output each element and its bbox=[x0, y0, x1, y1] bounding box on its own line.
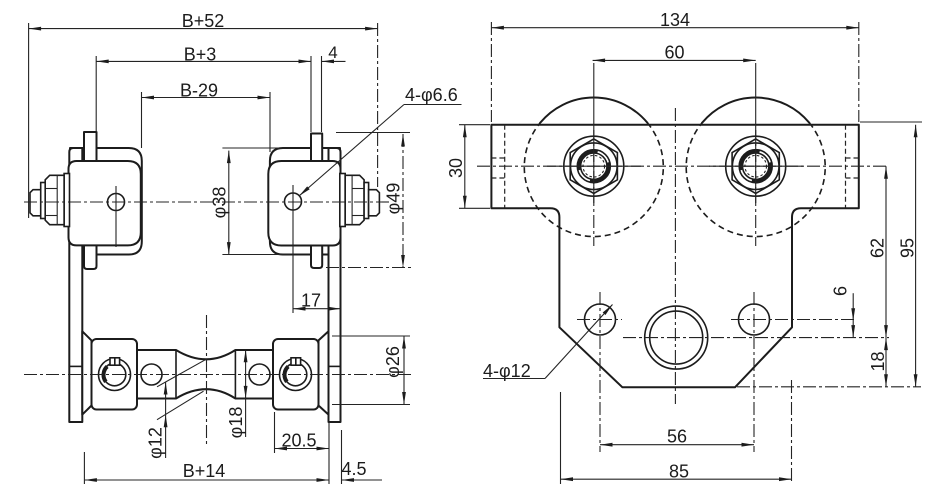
dim 6 bbox=[852, 293, 854, 337]
svg-text:φ12: φ12 bbox=[146, 427, 166, 459]
dim 56 bbox=[600, 444, 754, 446]
dim B+3 bbox=[96, 60, 311, 62]
svg-text:30: 30 bbox=[446, 158, 466, 178]
ext line phi49 top bbox=[336, 132, 410, 134]
ext line B+14 left bbox=[83, 452, 85, 484]
bolt left: washer bbox=[64, 174, 69, 227]
dim 17 bbox=[293, 308, 341, 310]
centerline: wheel axis horizontal bbox=[477, 165, 888, 167]
retaining ring left bbox=[104, 367, 108, 382]
centerline: lower hole right horizontal bbox=[731, 319, 856, 321]
ext line 4 right bbox=[321, 56, 323, 132]
clamp bracket right bbox=[268, 161, 340, 246]
bushing block left bbox=[92, 339, 138, 410]
bracket hole left crosshair bbox=[115, 186, 117, 247]
hanger tab left upper bbox=[84, 132, 97, 162]
dim 4 (tab thickness) bbox=[322, 60, 346, 62]
mounting hole lower-left (phi12) bbox=[585, 304, 616, 335]
bolt right: collar bbox=[364, 183, 369, 219]
svg-text:134: 134 bbox=[660, 10, 690, 30]
axle nut left: thread circle bbox=[583, 155, 605, 177]
dim 4.5 bbox=[342, 479, 383, 481]
ext line B-29 left bbox=[141, 92, 143, 148]
bearing outer circle left bbox=[99, 359, 131, 391]
centerline: vertical mid axis bbox=[206, 315, 208, 445]
sheave shoulder right bbox=[234, 350, 236, 399]
dim 60 bbox=[593, 59, 756, 61]
ext line 20.5 left bbox=[274, 412, 276, 453]
centerline: bracket bolt axis bbox=[24, 201, 389, 203]
hanger tab left lower bbox=[84, 244, 97, 269]
dim 134 bbox=[491, 27, 858, 29]
hanger tab right lower bbox=[311, 244, 322, 268]
retaining ring right bbox=[285, 367, 289, 382]
svg-text:φ49: φ49 bbox=[384, 183, 404, 215]
svg-text:18: 18 bbox=[868, 351, 888, 371]
bearing outer circle right bbox=[280, 359, 312, 391]
bushing block right bbox=[273, 339, 319, 410]
bracket hole right bbox=[285, 193, 302, 210]
bolt left: hex nut bbox=[45, 175, 64, 224]
wheel hub left (background silhouette) bbox=[70, 148, 142, 255]
centerline: lower hole left vertical bbox=[599, 292, 601, 452]
bolt left: collar bbox=[41, 183, 46, 219]
dim phi18 bbox=[245, 350, 247, 437]
hidden clamp lip right bbox=[845, 125, 847, 209]
wheel hub right (background silhouette) bbox=[270, 148, 340, 255]
dim phi12 line bbox=[165, 382, 167, 458]
ext line 85 left bbox=[560, 392, 562, 484]
dim 62 bbox=[885, 166, 887, 337]
axle nut right: thread circle bbox=[745, 155, 767, 177]
bolt right: thread stub bbox=[369, 190, 380, 216]
dim phi38 bbox=[228, 151, 230, 255]
svg-text:85: 85 bbox=[669, 461, 689, 481]
side plate profile bbox=[491, 125, 858, 388]
ext line B+14 right / 20.5 right bbox=[328, 422, 330, 484]
center bushing hole inner bbox=[650, 311, 703, 364]
ext line 4 left bbox=[310, 56, 312, 132]
centerline: lower hole left horizontal bbox=[577, 319, 622, 321]
axle nut right: circlip arcs bbox=[741, 151, 760, 170]
ext line phi38 bottom bbox=[222, 254, 290, 256]
svg-text:62: 62 bbox=[868, 238, 888, 258]
dim 30 bbox=[464, 125, 466, 209]
centerline: wheel left vertical bbox=[593, 63, 595, 127]
bolt right: hex nut bbox=[345, 175, 364, 224]
sheave shoulder left bbox=[175, 350, 177, 399]
svg-text:B+14: B+14 bbox=[183, 461, 226, 481]
bearing inner circle right bbox=[284, 363, 307, 386]
axle nut left: crosshair bbox=[593, 130, 595, 203]
grease fitting right bbox=[291, 358, 301, 365]
side plate right bbox=[329, 148, 341, 422]
ext line B+52 left bbox=[28, 23, 30, 218]
axle nut left: circlip arcs bbox=[579, 151, 598, 170]
grease fitting left bbox=[110, 358, 120, 365]
spindle cross hole left bbox=[141, 364, 162, 385]
ext line B+3 left bbox=[95, 56, 97, 132]
dim B+52 bbox=[29, 28, 378, 30]
axle nut right: ring circles bbox=[739, 150, 772, 183]
ext line phi38 top bbox=[222, 147, 290, 149]
centerline: roller axis bbox=[24, 374, 412, 376]
side plate left bbox=[69, 148, 82, 422]
ext line 30 bottom bbox=[459, 207, 490, 209]
svg-text:4: 4 bbox=[328, 43, 337, 62]
svg-text:56: 56 bbox=[667, 427, 687, 447]
axle nut left: ring circles bbox=[577, 150, 610, 183]
svg-text:4.5: 4.5 bbox=[341, 459, 366, 479]
bracket hole right crosshair + extension to 17-dim bbox=[292, 185, 294, 313]
ext line 134 right bbox=[858, 22, 860, 122]
ext line 134 left bbox=[490, 22, 492, 122]
ext line 30 top bbox=[459, 124, 490, 126]
ext line 95/18 bottom bbox=[737, 386, 921, 388]
centerline: center hole horizontal bbox=[623, 337, 889, 339]
side plate right joint line bbox=[329, 365, 341, 367]
axle nut left: hexagon bbox=[570, 139, 617, 194]
bushing flange left bbox=[82, 331, 91, 414]
hidden clamp lip left bbox=[504, 125, 506, 209]
dim 18 bbox=[885, 338, 887, 387]
dim 85 bbox=[561, 478, 792, 480]
svg-text:20.5: 20.5 bbox=[281, 431, 316, 451]
hanger tab right upper bbox=[311, 134, 322, 163]
bushing flange right bbox=[319, 331, 329, 414]
axle nut left: washer circle bbox=[564, 136, 624, 196]
svg-text:B-29: B-29 bbox=[180, 80, 218, 100]
svg-text:60: 60 bbox=[664, 43, 684, 63]
dim phi12 oblique extension lower bbox=[157, 391, 204, 420]
centerline: wheel tread bottom (phi49 extension) bbox=[326, 267, 412, 269]
svg-text:17: 17 bbox=[301, 291, 321, 311]
axle nut right: crosshair bbox=[755, 130, 757, 203]
dim B+14 bbox=[84, 479, 329, 481]
bolt right: washer bbox=[340, 174, 345, 227]
centerline: wheel right vertical bbox=[755, 63, 757, 127]
axle nut right: hexagon bbox=[732, 139, 779, 194]
ext line B+52 right bbox=[377, 23, 379, 187]
dim 20.5 bbox=[275, 448, 330, 450]
bolt left: thread stub bbox=[30, 190, 41, 216]
clamp bracket left bbox=[69, 161, 141, 245]
ext line 95 top bbox=[860, 121, 922, 123]
wheel left: hidden tread circle bbox=[524, 123, 663, 237]
svg-text:4-φ6.6: 4-φ6.6 bbox=[405, 85, 458, 105]
wheel right: hidden tread circle bbox=[686, 123, 825, 237]
axle nut left: chamfer circle bbox=[571, 143, 618, 190]
svg-text:B+52: B+52 bbox=[182, 11, 225, 31]
ext line 4.5 right bbox=[341, 430, 343, 484]
axle nut right: washer circle bbox=[726, 136, 786, 196]
axle nut right: chamfer circle bbox=[732, 143, 779, 190]
roller spindle with hourglass sheave bbox=[132, 350, 278, 399]
bracket hole left bbox=[108, 194, 125, 211]
wheel right: solid arc above plate bbox=[702, 98, 809, 123]
ext line phi26 bottom bbox=[332, 404, 410, 406]
svg-text:φ18: φ18 bbox=[226, 407, 246, 439]
ext line phi26 top bbox=[332, 335, 410, 337]
spindle cross hole right bbox=[249, 364, 270, 385]
ext line B-29 right bbox=[269, 92, 271, 152]
svg-text:φ38: φ38 bbox=[210, 187, 230, 219]
mounting hole lower-right (phi12) bbox=[739, 304, 770, 335]
dim phi26 bbox=[403, 336, 405, 405]
dim 95 bbox=[915, 125, 917, 387]
dim phi49 bbox=[402, 134, 404, 268]
wheel left: solid arc above plate bbox=[540, 98, 647, 123]
bearing inner circle left bbox=[103, 363, 126, 386]
svg-text:6: 6 bbox=[831, 286, 851, 296]
dim B-29 bbox=[142, 97, 271, 99]
svg-text:95: 95 bbox=[898, 238, 918, 258]
centerline: lower hole right vertical bbox=[753, 292, 755, 452]
center bushing hole outer bbox=[645, 306, 708, 369]
centerline: center hole vertical bbox=[674, 108, 676, 404]
ext line 85 right bbox=[791, 380, 793, 484]
side plate left joint line bbox=[69, 365, 82, 367]
svg-text:φ26: φ26 bbox=[383, 346, 403, 378]
dim phi12 oblique extension upper bbox=[157, 359, 207, 387]
svg-text:B+3: B+3 bbox=[184, 44, 217, 64]
